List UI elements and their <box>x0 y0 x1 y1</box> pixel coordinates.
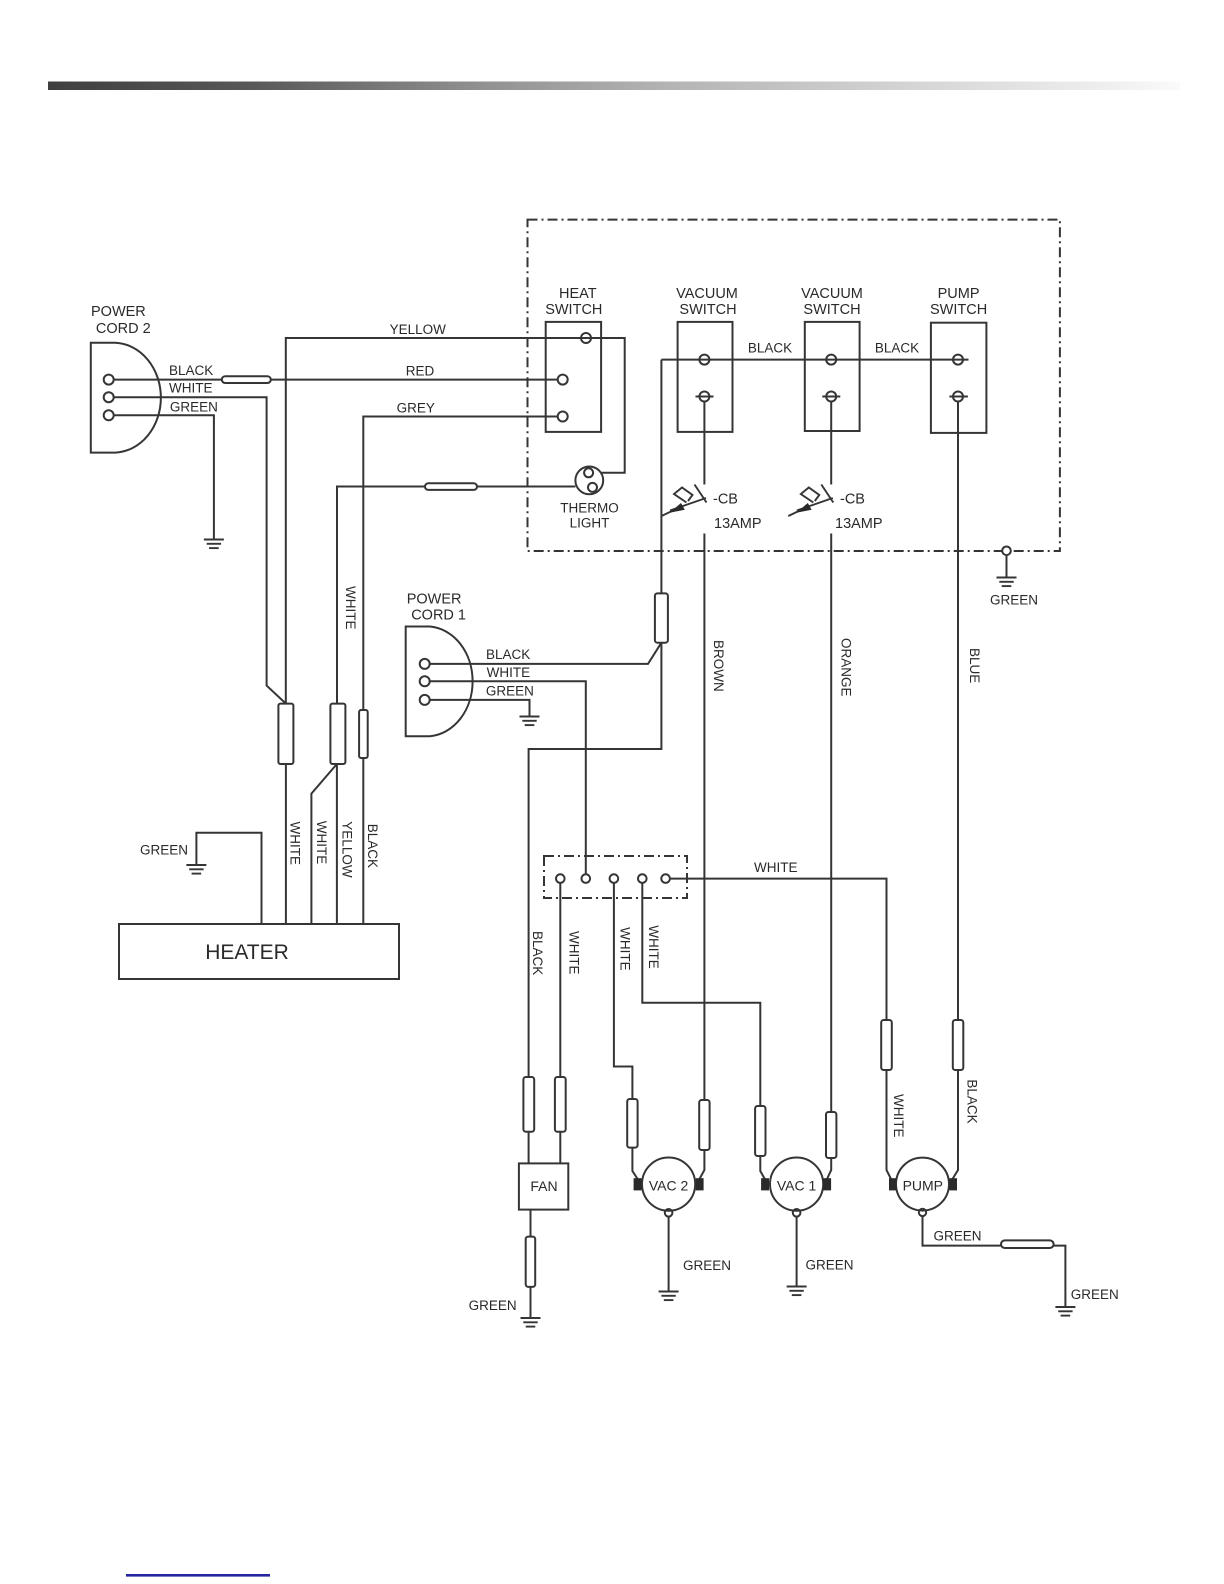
svg-text:GREEN: GREEN <box>469 1298 517 1313</box>
svg-text:13AMP: 13AMP <box>714 516 762 532</box>
svg-text:PUMP: PUMP <box>938 286 980 302</box>
wire fan ground lower <box>469 1287 531 1318</box>
svg-text:BLACK: BLACK <box>169 363 213 378</box>
splice connector heater yellow/white wires <box>330 704 345 764</box>
svg-text:WHITE: WHITE <box>891 1094 906 1138</box>
splice connector on grey/black heater wire <box>359 710 368 758</box>
svg-text:-CB: -CB <box>840 492 865 508</box>
wire vac1 left lower <box>760 1156 765 1179</box>
svg-text:WHITE: WHITE <box>567 931 582 975</box>
ground PC2 <box>204 540 224 549</box>
wire WHITE PC1 to junction box <box>430 681 586 874</box>
ground vac2 <box>659 1292 679 1301</box>
header bar <box>48 82 1180 91</box>
svg-text:13AMP: 13AMP <box>835 516 883 532</box>
wire BLUE pump switch to pump <box>957 402 959 1021</box>
svg-text:THERMO: THERMO <box>560 501 619 516</box>
wire WHITE from PC2 down to splice <box>114 381 286 704</box>
svg-text:SWITCH: SWITCH <box>803 302 860 318</box>
splice connector vac1 right (orange) <box>826 1112 836 1158</box>
svg-text:GREEN: GREEN <box>990 593 1038 608</box>
ground pump <box>1055 1307 1075 1316</box>
wire GREY from heat switch down to heater <box>363 401 557 925</box>
svg-text:HEATER: HEATER <box>205 941 289 964</box>
svg-text:-CB: -CB <box>713 492 738 508</box>
wire junction T1 to fan <box>559 883 561 1077</box>
svg-text:GREEN: GREEN <box>486 684 534 699</box>
svg-text:BLACK: BLACK <box>365 824 380 868</box>
svg-text:SWITCH: SWITCH <box>545 302 602 318</box>
svg-text:WHITE: WHITE <box>288 822 303 866</box>
wire GREEN from PC2 to ground <box>114 400 218 540</box>
splice connector vac2 left <box>627 1099 637 1148</box>
heater HTR1 <box>119 924 399 979</box>
pump motor M2 <box>889 1158 957 1217</box>
footer link line <box>126 1574 270 1577</box>
svg-text:POWER: POWER <box>91 304 146 320</box>
wire fan to ground <box>530 1210 532 1237</box>
svg-text:VAC 1: VAC 1 <box>777 1178 817 1194</box>
wire YELLOW from heater splice to heat switch <box>286 322 625 704</box>
splice connector heater white wires <box>278 704 293 764</box>
svg-text:POWER: POWER <box>407 592 462 608</box>
vacuum switch S3 <box>801 286 863 431</box>
splice connector fan right wire <box>555 1077 566 1132</box>
svg-text:CORD 1: CORD 1 <box>411 608 466 624</box>
thermo light DS1 <box>560 467 619 531</box>
splice connector pump left (white) <box>881 1020 892 1070</box>
splice connector vac2 right (brown) <box>699 1100 709 1150</box>
dashed enclosure box <box>528 220 1060 551</box>
splice connector on black/red wire <box>222 376 271 383</box>
wire fan left into box <box>528 1132 530 1164</box>
splice connector black feed <box>655 593 668 642</box>
ground heater <box>186 865 206 874</box>
circuit breaker CB2 <box>788 402 882 1113</box>
svg-text:VACUUM: VACUUM <box>801 286 863 302</box>
svg-text:HEAT: HEAT <box>559 286 597 302</box>
svg-text:PUMP: PUMP <box>903 1178 943 1194</box>
svg-text:BLUE: BLUE <box>967 648 982 683</box>
wire YELLOW splice to heater <box>336 764 338 924</box>
svg-text:BLACK: BLACK <box>875 340 919 355</box>
svg-text:WHITE: WHITE <box>487 665 530 680</box>
svg-text:BROWN: BROWN <box>711 640 726 692</box>
svg-text:WHITE: WHITE <box>343 586 358 630</box>
splice connector vac1 left <box>755 1106 765 1156</box>
svg-text:GREEN: GREEN <box>683 1258 731 1273</box>
svg-text:SWITCH: SWITCH <box>679 302 736 318</box>
wire black splice to power cord 1 <box>430 643 662 664</box>
wire vac2 right lower <box>700 1150 705 1179</box>
splice connector on thermo wire <box>425 483 477 490</box>
wire BLACK bus between switches <box>661 340 968 359</box>
wire GREEN pump to ground <box>923 1216 1066 1307</box>
power cord 1 PC1 <box>406 592 534 737</box>
heat switch S1 <box>545 286 602 432</box>
svg-text:VACUUM: VACUUM <box>676 286 738 302</box>
wire black splice down to fan <box>529 643 662 1077</box>
svg-text:CORD 2: CORD 2 <box>96 321 151 337</box>
svg-text:WHITE: WHITE <box>754 860 798 875</box>
wire vac2 left lower <box>632 1148 637 1179</box>
ground fan <box>521 1318 541 1327</box>
svg-text:YELLOW: YELLOW <box>340 821 355 878</box>
svg-text:YELLOW: YELLOW <box>390 322 447 337</box>
power cord 2 PC2 <box>91 304 161 453</box>
svg-text:SWITCH: SWITCH <box>930 302 987 318</box>
svg-text:VAC 2: VAC 2 <box>649 1178 689 1194</box>
ground PC1 <box>520 717 540 726</box>
svg-text:ORANGE: ORANGE <box>839 638 854 697</box>
wire WHITE 2 splice to heater <box>311 764 337 924</box>
wire junction T4 to vac1 <box>642 883 760 1106</box>
circuit breaker CB1 <box>662 402 762 1101</box>
svg-text:RED: RED <box>406 364 435 379</box>
wire BLACK/RED from PC2 to heat switch <box>114 363 558 380</box>
heater ground wire <box>140 833 262 924</box>
wire WHITE junction T5 to pump <box>670 860 887 1020</box>
splice connector pump right (blue/black) <box>953 1020 964 1070</box>
svg-text:GREEN: GREEN <box>934 1229 982 1244</box>
wire junction T3 to vac2 <box>614 883 633 1099</box>
junction box J1 <box>544 856 687 898</box>
svg-text:BLACK: BLACK <box>530 931 545 975</box>
ground on enclosure box <box>990 547 1038 608</box>
svg-text:GREY: GREY <box>397 401 435 416</box>
vacuum motor VAC1 <box>761 1158 831 1217</box>
svg-text:WHITE: WHITE <box>169 381 213 396</box>
wire pump left lower <box>887 1070 892 1179</box>
vacuum motor VAC2 <box>634 1158 704 1217</box>
wire pump right lower <box>953 1070 959 1179</box>
wire vac2 to ground <box>669 1217 731 1291</box>
svg-text:BLACK: BLACK <box>964 1079 979 1123</box>
vacuum switch S2 <box>676 286 738 432</box>
svg-text:GREEN: GREEN <box>1071 1287 1119 1302</box>
svg-text:GREEN: GREEN <box>140 843 188 858</box>
fan M1 <box>519 1163 568 1209</box>
wire GREEN PC1 to ground <box>430 700 530 716</box>
splice connector fan ground wire <box>526 1237 536 1287</box>
pump switch S4 <box>930 286 987 433</box>
svg-text:BLACK: BLACK <box>748 340 792 355</box>
splice connector fan left wire <box>523 1077 534 1132</box>
svg-text:FAN: FAN <box>530 1178 557 1194</box>
wire black feed from splice up to bus <box>660 360 662 594</box>
ground vac1 <box>787 1287 807 1296</box>
svg-text:WHITE: WHITE <box>314 821 329 865</box>
svg-text:GREEN: GREEN <box>806 1258 854 1273</box>
svg-text:WHITE: WHITE <box>618 927 633 971</box>
wire from thermo light to heater splice <box>337 487 575 704</box>
svg-text:GREEN: GREEN <box>170 400 218 415</box>
svg-text:LIGHT: LIGHT <box>570 516 610 531</box>
wire fan right into box <box>559 1132 561 1164</box>
wire vac1 to ground <box>797 1217 854 1286</box>
wire vac1 right lower <box>827 1158 831 1179</box>
splice connector pump green wire <box>1001 1240 1054 1248</box>
svg-text:BLACK: BLACK <box>486 647 530 662</box>
wire WHITE 1 splice to heater <box>285 764 287 924</box>
svg-text:WHITE: WHITE <box>646 925 661 969</box>
